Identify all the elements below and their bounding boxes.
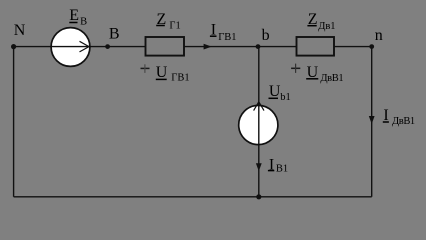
svg-text:ГВ1: ГВ1	[218, 32, 236, 43]
node dot bottom	[256, 194, 261, 199]
wire Z_G1 to b	[184, 46, 259, 48]
arrow of source E_B	[80, 41, 90, 52]
svg-text:N: N	[14, 22, 26, 39]
svg-text:ДвВ1: ДвВ1	[392, 116, 415, 127]
voltage source U_b1	[239, 102, 278, 145]
svg-text:B: B	[109, 25, 120, 42]
svg-text:n: n	[375, 27, 383, 44]
current arrow I_GB1	[204, 44, 212, 50]
wire bottom	[14, 196, 372, 198]
current arrow I_B1	[256, 163, 262, 171]
svg-text:ДвВ1: ДвВ1	[320, 73, 343, 84]
label U_b1	[269, 83, 291, 103]
label I_GB1	[210, 22, 237, 43]
node dot b	[256, 44, 261, 49]
label I_DvB1	[383, 107, 415, 127]
wire right branch	[371, 47, 373, 197]
impedance Z_Dv1	[297, 37, 335, 56]
svg-text:ГВ1: ГВ1	[171, 73, 189, 84]
label Z_Dv1	[307, 11, 335, 32]
label + U_DvB1	[291, 64, 343, 84]
voltage source E_B	[51, 28, 90, 67]
node dot N	[11, 44, 16, 49]
svg-text:b: b	[262, 27, 270, 44]
svg-text:Г1: Г1	[169, 21, 180, 32]
svg-text:b1: b1	[280, 92, 291, 103]
wire left branch	[13, 47, 15, 197]
wire N to Z_G1	[14, 46, 146, 48]
impedance Z_G1	[146, 37, 185, 56]
wire middle branch	[258, 47, 260, 197]
svg-text:Дв1: Дв1	[318, 21, 335, 32]
node dot n	[369, 44, 374, 49]
label I_B1	[268, 156, 288, 174]
svg-text:В: В	[80, 17, 87, 28]
wire Z_Dv1 to n	[334, 46, 372, 48]
label + U_GB1	[141, 64, 190, 84]
label Z_G1	[156, 11, 181, 32]
current arrow I_DvB1	[369, 116, 375, 124]
wire b to Z_Dv1	[259, 46, 297, 48]
label E_B	[69, 7, 87, 27]
node dot B	[105, 44, 110, 49]
svg-text:E: E	[69, 7, 79, 24]
svg-text:U: U	[156, 64, 168, 81]
svg-text:B1: B1	[276, 164, 288, 175]
